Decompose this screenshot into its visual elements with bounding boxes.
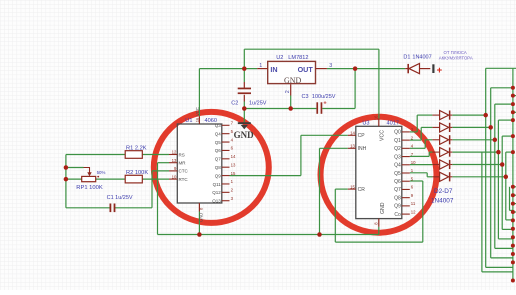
svg-text:Q3: Q3 xyxy=(215,123,222,128)
wire CP horizontal xyxy=(301,134,348,136)
svg-text:Q8: Q8 xyxy=(215,165,222,170)
svg-text:Q4: Q4 xyxy=(215,131,222,136)
wire mesh vertical 2 xyxy=(491,88,513,258)
svg-text:15: 15 xyxy=(231,171,236,176)
svg-text:GND: GND xyxy=(284,76,302,85)
svg-text:Q3: Q3 xyxy=(394,154,401,160)
wire mesh edge stubs xyxy=(513,96,516,212)
svg-text:D2-D7: D2-D7 xyxy=(434,188,453,195)
node OUT/C3 junction xyxy=(353,66,358,71)
capacitor C1 1u/25V xyxy=(107,195,133,212)
wire GND symbol lead xyxy=(243,95,245,122)
wire R1 left lead xyxy=(66,154,125,156)
svg-text:CR: CR xyxy=(358,187,366,193)
svg-text:Q4: Q4 xyxy=(394,163,401,169)
svg-text:GND: GND xyxy=(199,213,204,222)
wire mesh vertical 1 xyxy=(486,68,516,267)
wire RP1 to R2 xyxy=(96,178,126,180)
svg-text:Q7: Q7 xyxy=(215,157,222,162)
resistor R1 2.2K xyxy=(125,145,147,158)
svg-text:Q11: Q11 xyxy=(213,182,222,187)
svg-text:15: 15 xyxy=(350,184,355,189)
wire U3 Q0 to D2 xyxy=(410,115,433,132)
svg-text:C3: C3 xyxy=(302,94,309,100)
wire CR vertical drop xyxy=(334,189,336,242)
label D2-D7 xyxy=(431,188,454,204)
wire U3 INH vertical to bus xyxy=(319,148,321,234)
svg-text:1N4007: 1N4007 xyxy=(431,197,454,204)
svg-text:14: 14 xyxy=(350,131,355,136)
svg-text:Q9: Q9 xyxy=(394,204,401,210)
capacitor C3 100u/25V xyxy=(302,94,336,114)
svg-text:Q13: Q13 xyxy=(212,199,221,204)
wire CR horizontal xyxy=(335,188,348,190)
svg-text:50%: 50% xyxy=(97,170,106,175)
svg-text:MR: MR xyxy=(179,161,187,166)
svg-text:4017: 4017 xyxy=(387,121,399,127)
svg-text:100u/25V: 100u/25V xyxy=(312,94,336,100)
wire C3 right lead xyxy=(322,108,355,110)
wire RP1 left lead xyxy=(66,178,82,180)
wire IN row from U1 VCC column to IN node xyxy=(199,68,257,70)
wire C3 branch riser xyxy=(354,69,356,109)
wire mesh vertical 3 xyxy=(495,104,513,248)
svg-text:1N4007: 1N4007 xyxy=(412,55,431,61)
svg-text:Co: Co xyxy=(394,212,401,218)
wire mesh extra vertical A xyxy=(482,152,513,272)
svg-text:Q1: Q1 xyxy=(394,138,401,144)
svg-text:1: 1 xyxy=(259,63,262,69)
wire U3 Q5 to D7 xyxy=(410,173,433,177)
svg-text:10: 10 xyxy=(411,160,416,165)
wire U3 pin8 drop xyxy=(378,227,380,235)
svg-text:Q8: Q8 xyxy=(394,195,401,201)
svg-text:U2: U2 xyxy=(276,55,283,61)
svg-text:10: 10 xyxy=(172,174,177,179)
wire left rail vertical xyxy=(65,155,67,208)
wire mesh vertical 4 xyxy=(498,120,513,239)
node D3 bus junction xyxy=(488,125,493,129)
wire D4 cathode to bus xyxy=(452,139,495,141)
svg-text:13: 13 xyxy=(350,144,355,149)
node D6 bus junction xyxy=(500,162,505,167)
svg-text:13: 13 xyxy=(231,162,236,167)
wire D7 cathode to bus xyxy=(452,176,506,178)
highlight circle around U3 xyxy=(321,117,437,233)
wire U3 INH horizontal xyxy=(320,147,348,149)
label battery note xyxy=(439,50,473,60)
wire R1 to RS pin xyxy=(142,154,169,156)
svg-text:D1: D1 xyxy=(403,55,410,61)
svg-text:C1 1u/25V: C1 1u/25V xyxy=(107,195,133,201)
potentiometer RP1 100K xyxy=(76,168,105,192)
wire CTC branch vertical xyxy=(151,171,153,208)
U1 output pins Q3-Q13 xyxy=(212,121,236,204)
wire U1 Q9 horizontal xyxy=(230,175,301,177)
svg-text:14: 14 xyxy=(231,154,236,159)
node D5 bus junction xyxy=(496,150,501,155)
U3 output pins Q0-Q9 Co xyxy=(394,127,416,218)
wire mesh collector vertical xyxy=(512,68,514,280)
svg-text:АККУМУЛЯТОРА: АККУМУЛЯТОРА xyxy=(439,55,473,60)
svg-text:16: 16 xyxy=(195,117,200,122)
highlight circle around U1 xyxy=(154,112,269,223)
wire D3 cathode to bus xyxy=(452,126,490,128)
svg-text:R1 2.2K: R1 2.2K xyxy=(126,145,147,151)
svg-text:LM7812: LM7812 xyxy=(288,55,308,61)
wire C2 top lead xyxy=(243,69,245,89)
wire CR riser to Q6 xyxy=(422,181,424,242)
wire top loop left drop to IN node xyxy=(243,49,245,68)
wire U3 Q3 to D5 xyxy=(410,152,433,156)
resistor R2 100K xyxy=(125,170,148,183)
wire C1 left lead xyxy=(66,207,110,209)
svg-text:GND: GND xyxy=(380,202,386,214)
node D4 bus junction xyxy=(493,138,498,143)
wire D2 cathode to bus xyxy=(452,114,485,116)
svg-text:CP: CP xyxy=(358,133,366,139)
node GND row pin2 junction xyxy=(288,106,293,111)
svg-text:16: 16 xyxy=(373,115,378,120)
node mesh collector junctions xyxy=(511,86,515,283)
svg-text:U3: U3 xyxy=(362,121,369,127)
svg-text:12: 12 xyxy=(411,209,416,214)
svg-text:IN: IN xyxy=(270,65,277,74)
U3 box fill xyxy=(356,126,402,218)
svg-text:RP1 100K: RP1 100K xyxy=(76,185,103,191)
svg-text:1u/25V: 1u/25V xyxy=(249,101,267,107)
svg-text:13: 13 xyxy=(172,158,177,163)
wire Q9-CP vertical xyxy=(300,135,302,175)
svg-text:Q7: Q7 xyxy=(394,187,401,193)
U1 box fill xyxy=(177,124,222,203)
wire D5 cathode to bus xyxy=(452,151,498,153)
wire mesh vertical 5 xyxy=(502,136,513,229)
svg-text:Q2: Q2 xyxy=(394,146,401,152)
wire MR branch vertical to bus xyxy=(157,163,159,235)
wire CTC branch horizontal xyxy=(152,170,169,172)
wire U1 VCC riser xyxy=(198,69,200,117)
node pot-left junction xyxy=(64,177,69,182)
svg-text:Q0: Q0 xyxy=(394,130,401,136)
wire mesh vertical 6 xyxy=(506,152,513,220)
svg-text:U1: U1 xyxy=(185,118,192,124)
node wiper junction xyxy=(64,165,69,170)
IC U3 4017 body xyxy=(356,115,402,227)
wire ground bus xyxy=(158,234,379,236)
wire C1 right lead xyxy=(115,207,152,209)
svg-text:OUT: OUT xyxy=(298,65,314,74)
wire CR bottom horizontal xyxy=(335,241,423,243)
node IN junction xyxy=(242,66,247,71)
diodes D2-D7 1N4007 xyxy=(432,111,452,182)
wire U3 Q1 to D3 xyxy=(410,127,433,140)
node D2 bus junction xyxy=(483,113,488,118)
svg-text:VCC: VCC xyxy=(195,107,200,116)
U3 input pins CP INH CR xyxy=(348,131,367,193)
node bus INH junction xyxy=(317,232,322,237)
wire U3 Q4 to D6 xyxy=(410,164,433,166)
svg-text:Q12: Q12 xyxy=(212,190,221,195)
node GND row C2 junction xyxy=(242,106,247,111)
wire OUT row to D1 xyxy=(327,68,405,70)
svg-text:R2 100K: R2 100K xyxy=(126,170,148,176)
wire MR branch horizontal xyxy=(158,162,170,164)
svg-text:INH: INH xyxy=(358,146,367,152)
node D7 bus junction xyxy=(504,175,509,180)
svg-text:3: 3 xyxy=(329,63,332,69)
svg-text:RS: RS xyxy=(179,152,185,157)
svg-text:11: 11 xyxy=(411,201,416,206)
wire top loop horizontal xyxy=(244,48,379,50)
svg-text:GND: GND xyxy=(234,130,255,140)
svg-text:2: 2 xyxy=(285,90,291,93)
IC U1 4060 body xyxy=(177,107,222,222)
diode D1 1N4007 xyxy=(403,55,431,74)
wire GND row C2 to C3 xyxy=(244,108,316,110)
wire mesh extra vertical B xyxy=(510,187,513,211)
svg-text:Q6: Q6 xyxy=(215,148,222,153)
wire U3 Q2 to D4 xyxy=(410,140,433,149)
svg-text:+: + xyxy=(437,65,443,76)
ground symbol GND xyxy=(234,122,255,140)
wire R2 to RTC pin xyxy=(142,178,169,180)
wire D6 cathode to bus xyxy=(452,164,502,166)
U1 input pins RS MR CTC RTC xyxy=(169,150,188,182)
svg-text:CTC: CTC xyxy=(179,169,189,174)
svg-text:RTC: RTC xyxy=(179,177,189,182)
svg-text:12: 12 xyxy=(172,150,177,155)
voltage regulator U2 LM7812 xyxy=(257,55,332,93)
wire top loop right drop to U3 VCC xyxy=(378,49,380,118)
svg-text:Q6: Q6 xyxy=(394,179,401,185)
wire U2 pin2 drop xyxy=(290,84,292,108)
wire RP1 wiper lead xyxy=(66,167,84,169)
wire Q6 horizontal xyxy=(410,180,423,182)
wire U1 pin8 drop xyxy=(198,212,200,235)
svg-text:Q9: Q9 xyxy=(215,173,222,178)
node bus U1-GND junction xyxy=(197,232,202,237)
svg-text:Q5: Q5 xyxy=(394,171,401,177)
svg-text:Q5: Q5 xyxy=(215,140,222,145)
capacitor C2 1u/25V xyxy=(231,88,266,107)
battery plus terminal xyxy=(432,64,442,76)
svg-text:C2: C2 xyxy=(231,101,238,107)
svg-text:VCC: VCC xyxy=(380,130,386,141)
